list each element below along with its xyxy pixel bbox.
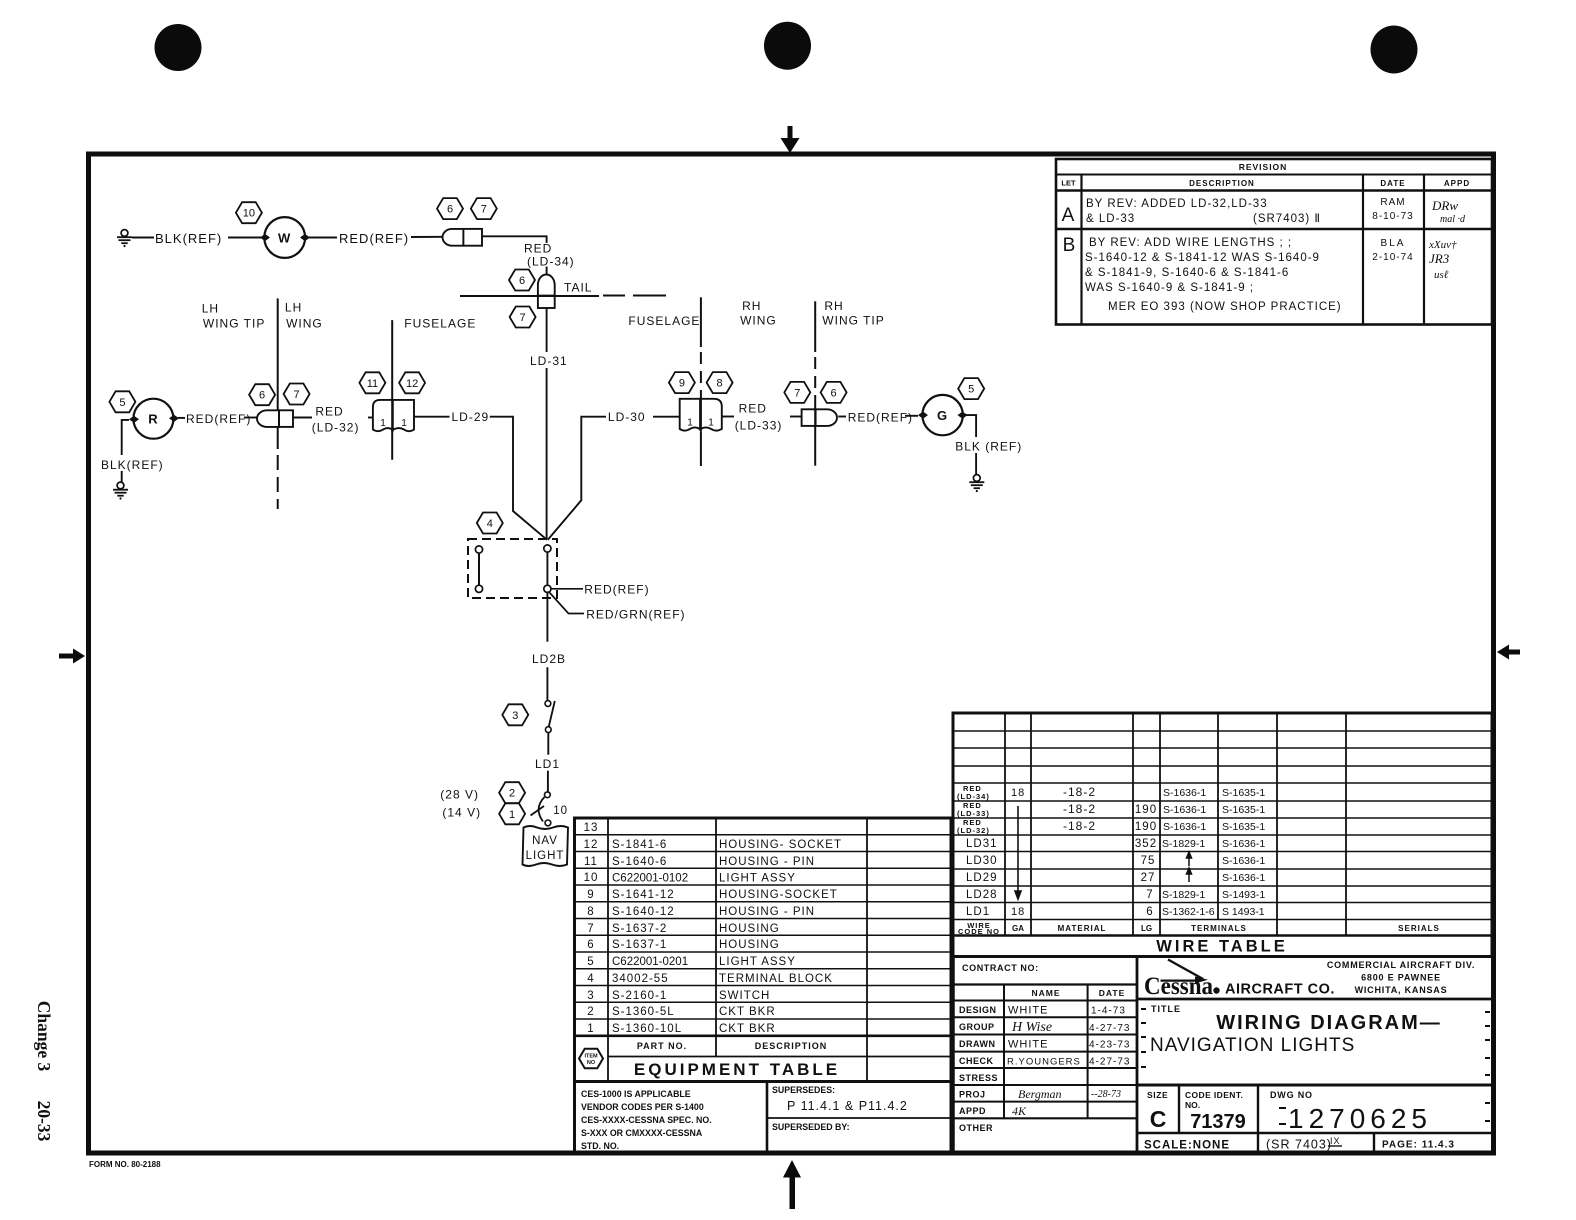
leader RED(REF) center — [551, 588, 583, 590]
svg-text:DESCRIPTION: DESCRIPTION — [1189, 179, 1255, 188]
svg-text:MATERIAL: MATERIAL — [1058, 924, 1107, 933]
svg-text:1: 1 — [708, 418, 714, 429]
callout hex 11 — [359, 372, 385, 393]
svg-text:20-33: 20-33 — [34, 1101, 54, 1142]
wire RED(REF) to connector 6/7 — [411, 236, 443, 238]
swoosh — [1168, 960, 1203, 980]
wire R lamp to ground — [122, 420, 129, 455]
terminal G left — [918, 412, 928, 419]
svg-text:1: 1 — [687, 418, 693, 429]
svg-text:TITLE: TITLE — [1151, 1004, 1181, 1014]
svg-text:PART NO.: PART NO. — [637, 1041, 687, 1051]
svg-text:S-1635-1: S-1635-1 — [1222, 804, 1265, 816]
svg-text:RED/GRN(REF): RED/GRN(REF) — [586, 608, 685, 622]
callout hex 12 — [399, 372, 425, 393]
ground at G lamp — [969, 475, 984, 493]
svg-text:R: R — [148, 412, 158, 427]
svg-text:LIGHT: LIGHT — [526, 850, 565, 862]
contract box bottom — [953, 983, 1137, 985]
callout hex 4 — [477, 513, 503, 534]
svg-text:S-1841-6: S-1841-6 — [612, 839, 667, 851]
svg-text:LD28: LD28 — [966, 889, 998, 901]
wire LD-31 upper — [546, 308, 548, 352]
vendor code notes — [581, 1089, 712, 1151]
svg-text:1: 1 — [509, 809, 515, 821]
svg-text:FUSELAGE: FUSELAGE — [404, 317, 476, 331]
svg-text:CONTRACT NO:: CONTRACT NO: — [962, 963, 1039, 973]
spare terminal pair — [475, 546, 482, 553]
svg-text:2: 2 — [587, 1006, 594, 1018]
svg-text:NO: NO — [587, 1060, 596, 1066]
svg-text:2-10-74: 2-10-74 — [1372, 252, 1413, 263]
svg-text:8-10-73: 8-10-73 — [1372, 211, 1413, 222]
callout hex 8 — [707, 372, 733, 393]
svg-text:10: 10 — [584, 872, 599, 884]
callout hex 1 — [499, 803, 525, 824]
row A/B divider — [1056, 228, 1492, 230]
revision table outer box — [1056, 159, 1492, 325]
svg-text:(LD-33): (LD-33) — [957, 809, 990, 818]
svg-text:ITEM: ITEM — [584, 1054, 598, 1060]
svg-text:RED(REF): RED(REF) — [848, 411, 913, 425]
wire between studs — [546, 552, 548, 585]
boundary line through connector 11/12 — [391, 400, 393, 432]
svg-text:C622001-0102: C622001-0102 — [612, 873, 688, 885]
svg-text:RED(REF): RED(REF) — [186, 412, 251, 426]
svg-text:4-27-73: 4-27-73 — [1089, 1023, 1130, 1034]
registration dot left — [155, 24, 202, 71]
svg-text:S 1493-1: S 1493-1 — [1222, 906, 1265, 918]
svg-text:S-XXX OR CMXXXX-CESSNA: S-XXX OR CMXXXX-CESSNA — [581, 1128, 703, 1138]
svg-text:7: 7 — [794, 387, 800, 399]
lamp W tail light — [264, 217, 305, 258]
svg-text:6: 6 — [519, 275, 525, 287]
terminal R left — [129, 416, 139, 423]
svg-text:APPD: APPD — [1444, 179, 1470, 188]
svg-text:(14 V): (14 V) — [442, 806, 481, 820]
svg-text:RH: RH — [742, 299, 761, 313]
RH WING / RH WING TIP boundary line — [814, 301, 816, 465]
svg-text:R.YOUNGERS: R.YOUNGERS — [1007, 1057, 1081, 1068]
leader RED/GRN(REF) — [550, 593, 585, 614]
wire table row lines — [953, 730, 1492, 732]
equipment table row lines — [575, 834, 952, 836]
callout hex 6 — [437, 198, 463, 219]
svg-text:5: 5 — [587, 956, 594, 968]
svg-text:RAM: RAM — [1380, 197, 1405, 208]
svg-text:DRAWN: DRAWN — [959, 1039, 996, 1049]
boundary line through connector 9/8 — [700, 399, 702, 431]
svg-text:WING TIP: WING TIP — [822, 314, 884, 328]
svg-text:4: 4 — [487, 518, 493, 530]
NAV LIGHT box — [523, 826, 569, 866]
svg-text:S-1636-1: S-1636-1 — [1163, 787, 1206, 799]
svg-text:10: 10 — [243, 208, 255, 220]
svg-text:APPD: APPD — [959, 1106, 986, 1116]
svg-text:(LD-34): (LD-34) — [527, 255, 575, 269]
switch S (item 3) — [545, 701, 551, 707]
svg-text:--28-73: --28-73 — [1091, 1089, 1121, 1100]
svg-text:3: 3 — [512, 710, 518, 722]
svg-text:-18-2: -18-2 — [1063, 819, 1096, 833]
boundary line through LH wing tip splice — [278, 410, 280, 427]
svg-text:-18-2: -18-2 — [1063, 785, 1096, 799]
terminal W left — [260, 234, 270, 241]
svg-text:S-1641-12: S-1641-12 — [612, 889, 675, 901]
svg-text:S-1636-1: S-1636-1 — [1222, 872, 1265, 884]
terminals ditto arrow LD29 — [1187, 868, 1192, 882]
equipment table outer — [575, 818, 952, 1082]
svg-text:10: 10 — [553, 805, 568, 817]
ground at W lamp — [117, 230, 132, 248]
svg-text:LG: LG — [1141, 924, 1152, 933]
svg-text:Cessna: Cessna — [1144, 973, 1213, 1000]
svg-text:RED: RED — [739, 402, 767, 416]
connector splice 7/6 RH — [802, 409, 837, 426]
svg-text:6: 6 — [831, 387, 837, 399]
lamp R branch — [122, 417, 547, 540]
svg-text:NO.: NO. — [1185, 1100, 1200, 1110]
svg-text:4-23-73: 4-23-73 — [1089, 1040, 1130, 1051]
svg-text:P 11.4.1 & P11.4.2: P 11.4.1 & P11.4.2 — [787, 1099, 908, 1113]
connector block 11/12 — [373, 400, 414, 431]
svg-text:CKT BKR: CKT BKR — [719, 1023, 776, 1035]
code ident cell right — [1257, 1085, 1259, 1153]
svg-text:18: 18 — [1011, 906, 1025, 918]
left FUSELAGE boundary line — [391, 320, 393, 460]
callout hex 5 left — [109, 391, 135, 412]
svg-text:7: 7 — [481, 204, 487, 216]
svg-text:7: 7 — [294, 389, 300, 401]
right FUSELAGE boundary line — [700, 297, 702, 466]
wire LD-31 lower — [546, 368, 548, 540]
TAIL station line — [460, 295, 666, 298]
svg-text:LD30: LD30 — [966, 855, 998, 867]
terminals ditto arrow LD30 — [1187, 852, 1192, 866]
svg-text:GA: GA — [1012, 924, 1024, 933]
svg-text:S-1636-1: S-1636-1 — [1163, 821, 1206, 833]
wire W lamp ground lead — [132, 237, 154, 239]
svg-text:S-1635-1: S-1635-1 — [1222, 787, 1265, 799]
svg-text:G: G — [937, 408, 948, 423]
bottom center alignment arrow — [783, 1160, 801, 1209]
svg-text:S-1829-1: S-1829-1 — [1162, 889, 1205, 901]
top center alignment arrow — [781, 126, 800, 153]
svg-text:6: 6 — [447, 204, 453, 216]
svg-text:TERMINALS: TERMINALS — [1191, 924, 1247, 933]
callout hex 6 — [249, 384, 275, 405]
svg-text:4-27-73: 4-27-73 — [1089, 1057, 1130, 1068]
svg-text:5: 5 — [119, 397, 125, 409]
wire drop to tail connector — [546, 267, 548, 275]
svg-text:DATE: DATE — [1380, 179, 1405, 188]
svg-text:5: 5 — [968, 384, 974, 396]
name/date grid row lines — [953, 1000, 1137, 1002]
svg-text:mal ·d: mal ·d — [1440, 214, 1466, 225]
svg-text:NAV: NAV — [532, 835, 558, 847]
item-no hexagon symbol — [579, 1049, 603, 1068]
svg-text:13: 13 — [584, 822, 599, 834]
svg-text:S-1635-1: S-1635-1 — [1222, 821, 1265, 833]
svg-text:CES-1000 IS APPLICABLE: CES-1000 IS APPLICABLE — [581, 1089, 691, 1099]
svg-text:11: 11 — [584, 856, 598, 868]
svg-text:CES-XXXX-CESSNA SPEC. NO.: CES-XXXX-CESSNA SPEC. NO. — [581, 1115, 712, 1125]
title block left edge — [951, 957, 955, 1154]
svg-text:WIRE TABLE: WIRE TABLE — [1156, 938, 1287, 956]
wire LD1 — [547, 733, 549, 755]
svg-text:S-1640-12: S-1640-12 — [612, 906, 675, 918]
cessna box bottom — [1137, 998, 1492, 1001]
wire connector to tail drop — [482, 236, 547, 243]
header bottom / banner top — [953, 934, 1492, 937]
scale row top — [1137, 1132, 1492, 1134]
svg-text:C: C — [1150, 1106, 1167, 1132]
svg-text:WING: WING — [286, 317, 323, 331]
svg-text:EQUIPMENT TABLE: EQUIPMENT TABLE — [634, 1060, 840, 1079]
svg-text:DWG NO: DWG NO — [1270, 1090, 1313, 1100]
svg-text:FORM NO. 80-2188: FORM NO. 80-2188 — [89, 1160, 161, 1169]
svg-text:9: 9 — [679, 378, 685, 390]
svg-text:BLK(REF): BLK(REF) — [155, 231, 222, 246]
svg-text:S-1640-12 & S-1841-12 WAS S-16: S-1640-12 & S-1841-12 WAS S-1640-9 — [1085, 252, 1320, 264]
svg-text:BY REV: ADD WIRE LENGTHS ; ;: BY REV: ADD WIRE LENGTHS ; ; — [1089, 237, 1292, 249]
title box — [1150, 1004, 1442, 1056]
svg-text:& S-1841-9, S-1640-6 & S-1841-: & S-1841-9, S-1640-6 & S-1841-6 — [1085, 267, 1289, 279]
svg-text:SWITCH: SWITCH — [719, 990, 770, 1002]
svg-text:W: W — [278, 231, 291, 246]
svg-text:COMMERCIAL AIRCRAFT DIV.: COMMERCIAL AIRCRAFT DIV. — [1327, 960, 1475, 970]
svg-text:6800 E PAWNEE: 6800 E PAWNEE — [1361, 973, 1441, 983]
wire BLK to W lamp — [228, 237, 262, 239]
terminal R right — [169, 415, 179, 422]
callout hex 7 — [784, 382, 810, 403]
svg-text:CODE NO: CODE NO — [958, 927, 1000, 936]
svg-text:OTHER: OTHER — [959, 1123, 993, 1133]
wire table banner bottom / title block top — [953, 955, 1492, 958]
svg-text:SUPERSEDES:: SUPERSEDES: — [772, 1085, 835, 1095]
svg-text:GROUP: GROUP — [959, 1022, 995, 1032]
svg-text:HOUSING - PIN: HOUSING - PIN — [719, 906, 815, 918]
svg-text:DESCRIPTION: DESCRIPTION — [755, 1041, 828, 1051]
ground at R lamp — [113, 482, 128, 500]
svg-text:LIGHT ASSY: LIGHT ASSY — [719, 873, 796, 885]
svg-text:STRESS: STRESS — [959, 1073, 998, 1083]
lamp G — [922, 395, 962, 435]
Cessna logo — [1144, 960, 1475, 1001]
svg-text:S-1829-1: S-1829-1 — [1162, 838, 1205, 850]
svg-text:1270625: 1270625 — [1288, 1103, 1432, 1134]
svg-text:BY REV: ADDED LD-32,LD-33: BY REV: ADDED LD-32,LD-33 — [1086, 198, 1268, 210]
svg-text:WING TIP: WING TIP — [203, 317, 265, 331]
svg-text:7: 7 — [520, 312, 526, 324]
binder tick marks — [1141, 1009, 1490, 1121]
LET column line — [1080, 175, 1082, 325]
svg-text:LD1: LD1 — [535, 757, 560, 771]
svg-text:HOUSING - PIN: HOUSING - PIN — [719, 856, 815, 868]
wire G lamp to ground — [966, 415, 976, 437]
svg-text:Bergman: Bergman — [1018, 1087, 1062, 1101]
svg-text:2: 2 — [509, 788, 515, 800]
svg-text:LD1: LD1 — [966, 906, 990, 918]
svg-text:LH: LH — [285, 301, 302, 315]
size / code ident / dwg no — [1147, 1090, 1432, 1134]
svg-text:WHITE: WHITE — [1008, 1039, 1048, 1051]
svg-text:S-1493-1: S-1493-1 — [1222, 889, 1265, 901]
svg-text:A: A — [1062, 205, 1075, 226]
svg-text:352: 352 — [1135, 838, 1157, 850]
svg-text:TERMINAL BLOCK: TERMINAL BLOCK — [719, 973, 833, 985]
svg-text:LD-29: LD-29 — [452, 410, 490, 424]
banner bottom — [575, 1080, 952, 1083]
svg-text:12: 12 — [406, 378, 418, 390]
header separator — [575, 1035, 952, 1038]
svg-text:NAME: NAME — [1031, 988, 1060, 998]
svg-text:8: 8 — [587, 906, 594, 918]
scale row — [1144, 1136, 1455, 1152]
svg-text:8: 8 — [717, 378, 723, 390]
node stud lower — [544, 585, 551, 592]
lamp R — [133, 399, 173, 439]
wire R lamp to RED(REF) — [178, 417, 185, 419]
svg-text:CODE IDENT.: CODE IDENT. — [1185, 1090, 1243, 1100]
wire LD-30 — [548, 415, 976, 540]
callout hex 7 tail — [510, 307, 536, 328]
revision header band line — [1056, 174, 1492, 176]
svg-text:RED(REF): RED(REF) — [339, 231, 409, 246]
svg-text:71379: 71379 — [1190, 1111, 1246, 1133]
svg-text:S-1360-10L: S-1360-10L — [612, 1023, 682, 1035]
svg-text:7: 7 — [1146, 889, 1153, 901]
svg-text:(SR 7403): (SR 7403) — [1266, 1138, 1332, 1152]
svg-text:SIZE: SIZE — [1147, 1090, 1168, 1100]
svg-text:18: 18 — [1011, 787, 1025, 799]
svg-text:1: 1 — [401, 418, 407, 429]
svg-text:6: 6 — [259, 390, 265, 402]
svg-text:S-1360-5L: S-1360-5L — [612, 1006, 675, 1018]
svg-text:NAVIGATION LIGHTS: NAVIGATION LIGHTS — [1150, 1035, 1355, 1056]
boundary line through RH wing tip splice — [814, 409, 816, 426]
left alignment arrow — [59, 649, 85, 664]
svg-text:LD31: LD31 — [966, 838, 998, 850]
svg-text:S-1362-1-6: S-1362-1-6 — [1162, 906, 1215, 918]
svg-text:S-1637-2: S-1637-2 — [612, 923, 667, 935]
terminal block dashed outline — [468, 539, 557, 598]
connector splice 6/7 (LD-32) — [257, 410, 293, 427]
svg-text:PROJ: PROJ — [959, 1090, 986, 1100]
svg-text:1: 1 — [587, 1023, 594, 1035]
svg-text:RED: RED — [524, 242, 552, 256]
node stud upper — [544, 545, 551, 552]
svg-text:RH: RH — [824, 299, 843, 313]
wire connector 9/8 to LD-33 label — [722, 416, 734, 418]
svg-text:LD-31: LD-31 — [530, 354, 568, 368]
svg-text:H Wise: H Wise — [1011, 1020, 1052, 1035]
svg-text:HOUSING- SOCKET: HOUSING- SOCKET — [719, 839, 842, 851]
title block divider (left of cessna) — [1136, 957, 1139, 1154]
svg-text:4: 4 — [587, 973, 594, 985]
circuit breaker CB (items 1/2) — [545, 792, 551, 798]
callout hex 6 — [821, 382, 847, 403]
svg-text:WIRING DIAGRAM—: WIRING DIAGRAM— — [1216, 1012, 1442, 1034]
svg-text:LH: LH — [202, 302, 219, 316]
title box bottom — [1137, 1084, 1492, 1087]
wire table column lines — [1004, 713, 1006, 936]
tail splice connector (vertical) — [538, 275, 555, 309]
callout hex 3 — [502, 704, 528, 725]
wire LD2B — [546, 592, 548, 641]
callout hex 9 — [669, 372, 695, 393]
svg-text:usℓ: usℓ — [1434, 269, 1449, 281]
equipment table column lines — [607, 818, 609, 1082]
svg-text:190: 190 — [1135, 804, 1157, 816]
svg-text:DATE: DATE — [1099, 988, 1126, 998]
wire label to connector 11/12 — [368, 417, 373, 419]
svg-text:WICHITA, KANSAS: WICHITA, KANSAS — [1355, 985, 1448, 995]
svg-text:75: 75 — [1141, 855, 1156, 867]
svg-text:FUSELAGE: FUSELAGE — [628, 314, 700, 328]
wire table outer — [953, 713, 1492, 957]
svg-text:SCALE:NONE: SCALE:NONE — [1144, 1140, 1230, 1152]
svg-text:S-1640-6: S-1640-6 — [612, 856, 667, 868]
svg-text:B: B — [1063, 235, 1076, 256]
svg-text:(28 V): (28 V) — [440, 788, 479, 802]
svg-text:S-1636-1: S-1636-1 — [1222, 838, 1265, 850]
svg-text:BLA: BLA — [1381, 238, 1406, 249]
wire LD-33 label to connector 7/6 — [790, 416, 802, 418]
revision subheader line — [1056, 189, 1492, 191]
terminal W right — [300, 234, 310, 241]
callout hex 2 — [499, 782, 525, 803]
svg-text:LIGHT ASSY: LIGHT ASSY — [719, 956, 796, 968]
svg-text:(LD-34): (LD-34) — [957, 792, 990, 801]
DATE column line — [1362, 175, 1364, 325]
svg-text:LD2B: LD2B — [532, 652, 566, 666]
svg-text:BLK (REF): BLK (REF) — [955, 440, 1022, 454]
svg-text:S-1636-1: S-1636-1 — [1222, 855, 1265, 867]
drawing sheet border frame — [89, 154, 1494, 1153]
svg-text:DRw: DRw — [1431, 198, 1458, 213]
svg-text:BLK(REF): BLK(REF) — [101, 458, 164, 472]
svg-text:1-4-73: 1-4-73 — [1091, 1006, 1126, 1017]
svg-text:AIRCRAFT CO.: AIRCRAFT CO. — [1225, 982, 1335, 998]
svg-text:STD. NO.: STD. NO. — [581, 1141, 619, 1151]
callout hex 7 — [471, 198, 497, 219]
svg-text:(LD-32): (LD-32) — [312, 421, 360, 435]
svg-text:SUPERSEDED BY:: SUPERSEDED BY: — [772, 1122, 850, 1132]
GA ditto arrow — [1015, 806, 1021, 899]
svg-text:(SR7403) Ⅱ: (SR7403) Ⅱ — [1253, 213, 1321, 225]
terminal G right — [958, 412, 968, 419]
svg-text:6: 6 — [587, 939, 594, 951]
notes box divider — [766, 1082, 769, 1154]
wire connector to LD-32 label — [293, 417, 312, 419]
svg-text:WAS S-1640-9 & S-1841-9 ;: WAS S-1640-9 & S-1841-9 ; — [1085, 282, 1254, 294]
svg-text:C622001-0201: C622001-0201 — [612, 956, 688, 968]
svg-text:4K: 4K — [1012, 1104, 1027, 1118]
svg-text:SERIALS: SERIALS — [1398, 924, 1440, 933]
callout hex 7 — [284, 384, 310, 405]
svg-text:VENDOR CODES PER S-1400: VENDOR CODES PER S-1400 — [581, 1102, 704, 1112]
right alignment arrow — [1497, 645, 1520, 660]
callout hex 6 tail — [509, 270, 535, 291]
svg-text:TAIL: TAIL — [564, 281, 592, 295]
name/date grid column lines — [1003, 985, 1005, 1119]
registration dot right — [1371, 26, 1418, 74]
svg-text:190: 190 — [1135, 821, 1157, 833]
wire connector to RED(REF) G — [838, 416, 846, 418]
svg-text:WING: WING — [740, 314, 777, 328]
svg-text:xXuv†: xXuv† — [1428, 239, 1457, 251]
